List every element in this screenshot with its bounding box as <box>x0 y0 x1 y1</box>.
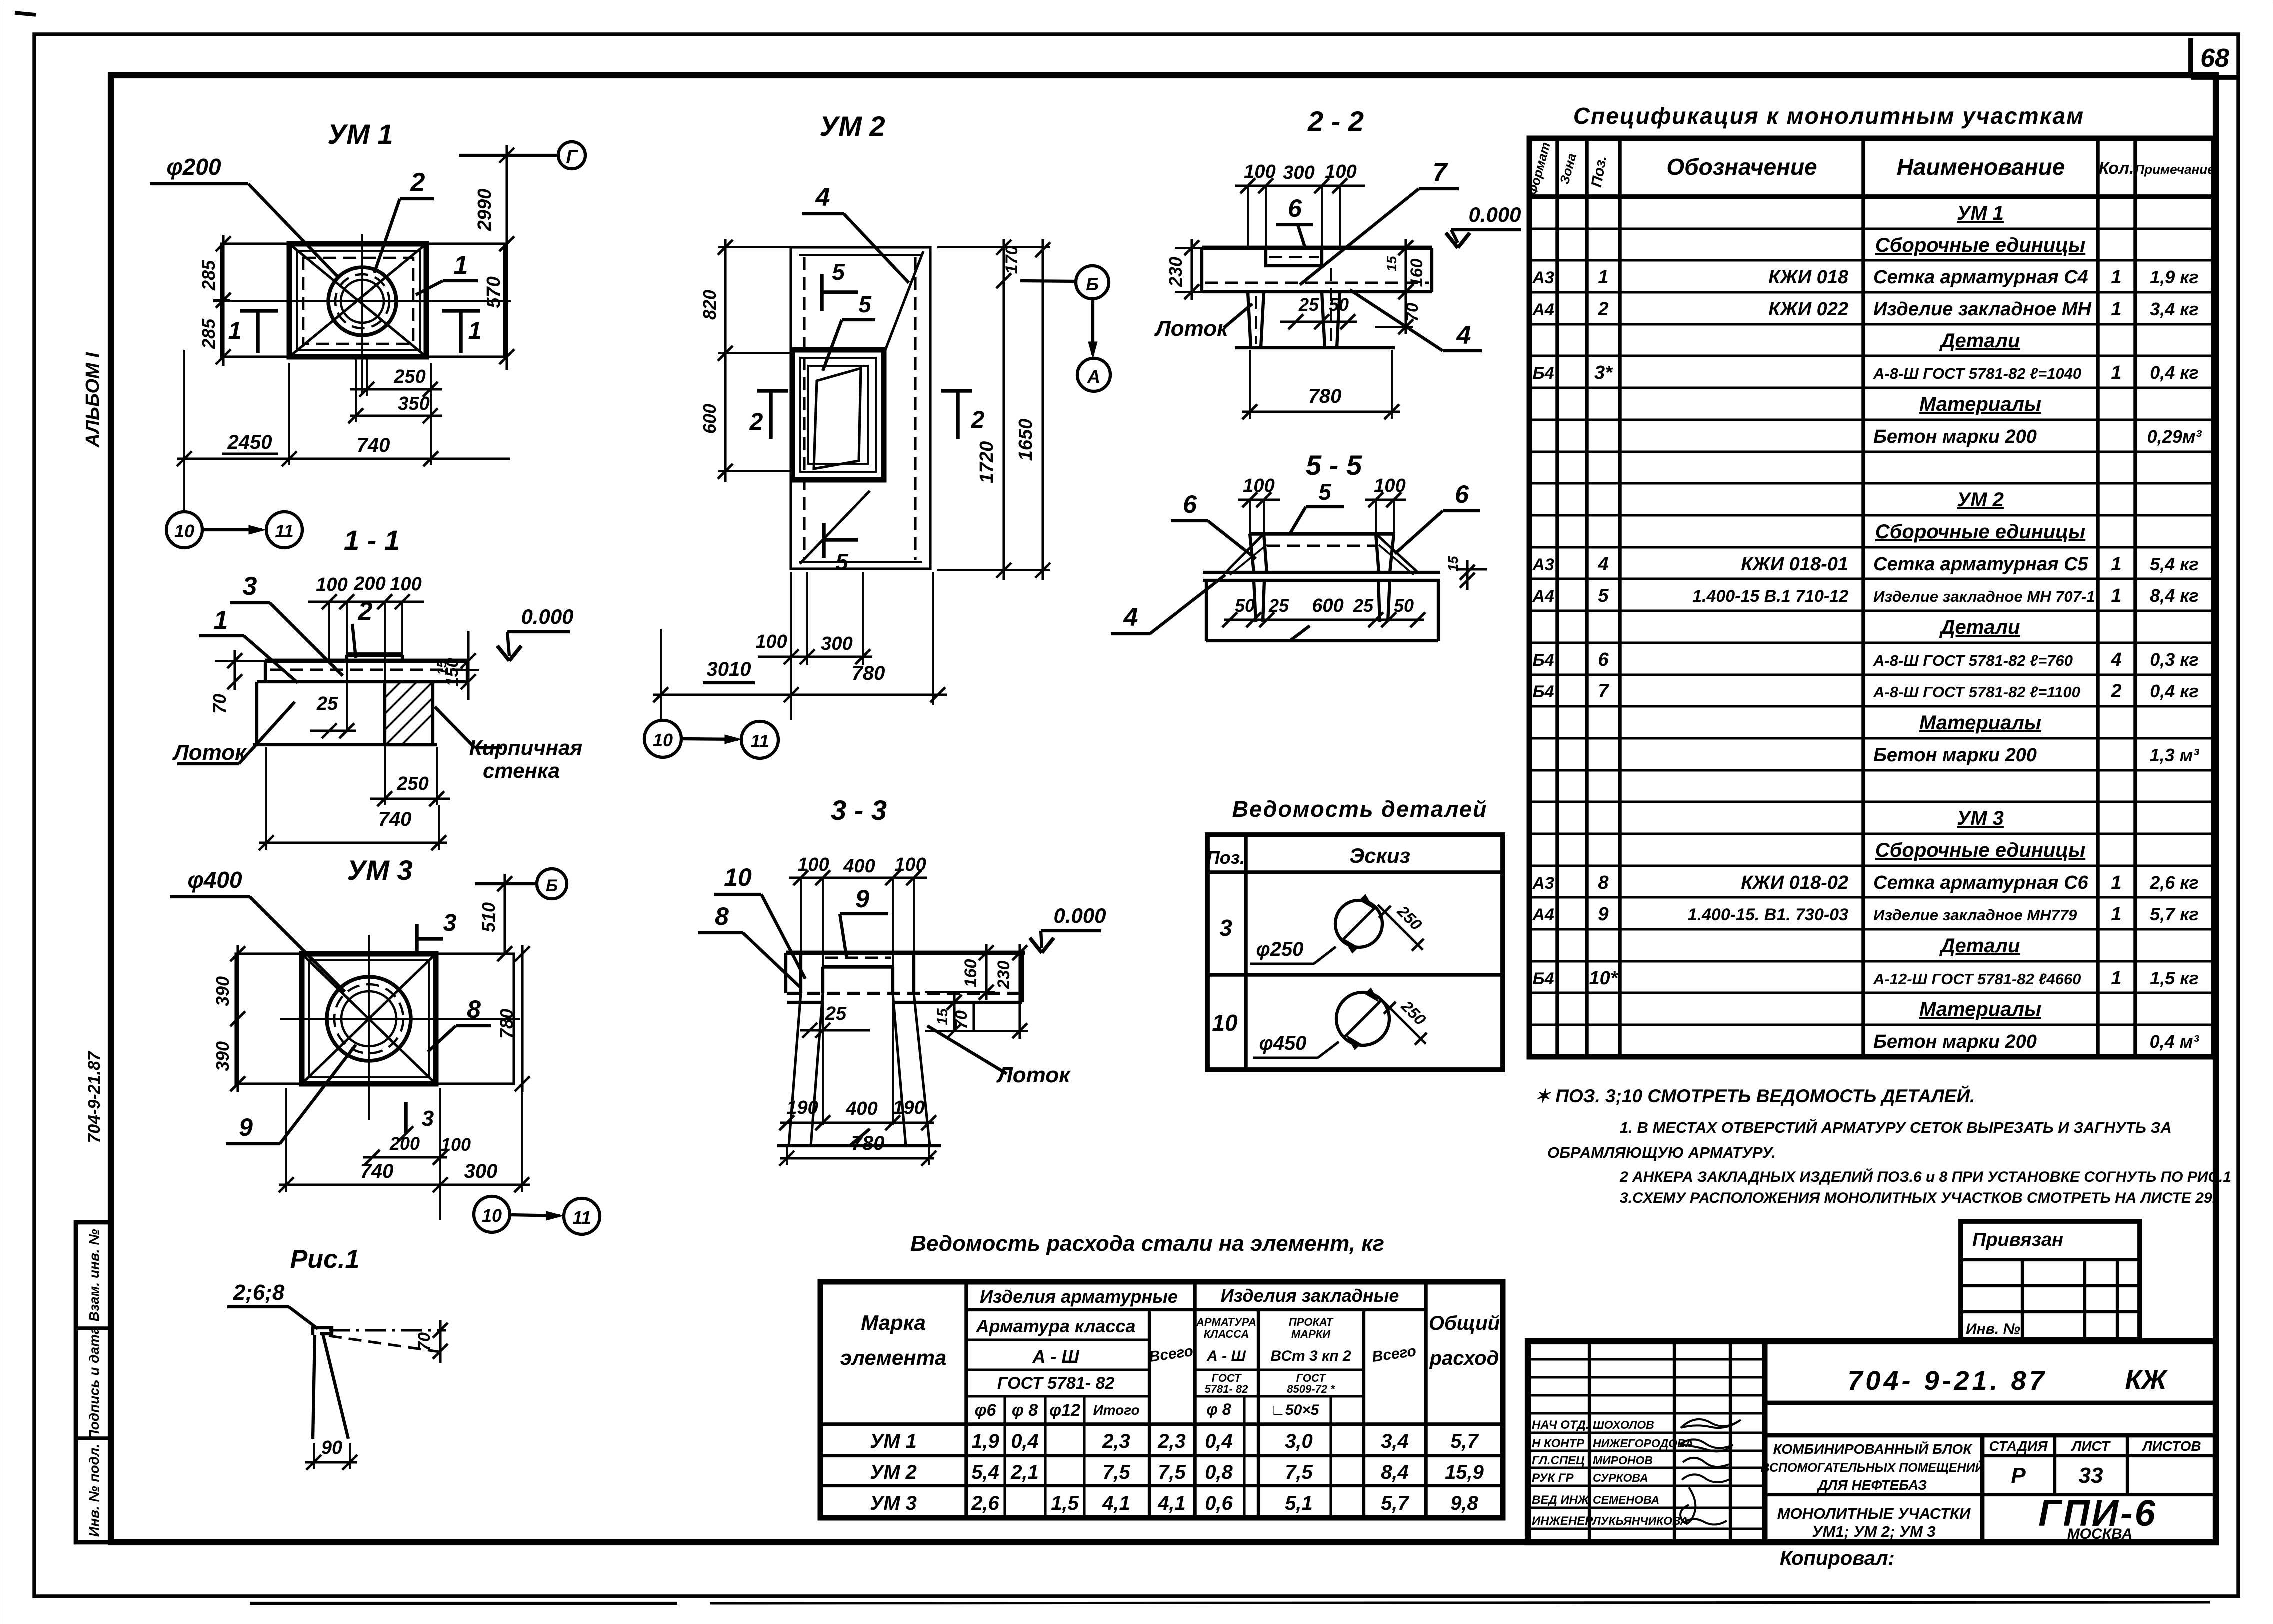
svg-text:Обозначение: Обозначение <box>1666 154 1817 180</box>
svg-text:Изделия арматурные: Изделия арматурные <box>980 1286 1178 1307</box>
svg-text:МАРКИ: МАРКИ <box>1291 1328 1331 1340</box>
УМ3 dim 510 <box>503 874 506 954</box>
svg-text:Инв. № подл.: Инв. № подл. <box>86 1444 102 1537</box>
УМ1 opening circles <box>328 267 396 335</box>
УМ3 inner thin rect <box>309 960 429 1077</box>
УМ2 bottom extension lines <box>660 629 662 720</box>
svg-text:5,7: 5,7 <box>1381 1492 1409 1514</box>
svg-text:1,9 кг: 1,9 кг <box>2150 267 2199 287</box>
2-2 slab bottom line <box>1202 290 1432 293</box>
svg-text:1: 1 <box>2111 267 2121 288</box>
5-5 floor break mark <box>1290 626 1310 641</box>
svg-text:МОНОЛИТНЫЕ УЧАСТКИ: МОНОЛИТНЫЕ УЧАСТКИ <box>1777 1505 1971 1522</box>
svg-text:Детали: Детали <box>1939 616 2020 638</box>
1-1 right edge <box>466 661 469 682</box>
svg-text:5,7: 5,7 <box>1450 1430 1479 1452</box>
svg-text:1,9: 1,9 <box>971 1430 999 1452</box>
svg-text:ОБРАМЛЯЮЩУЮ АРМАТУРУ.: ОБРАМЛЯЮЩУЮ АРМАТУРУ. <box>1547 1144 1776 1161</box>
svg-text:15: 15 <box>934 1008 951 1025</box>
УМ2 opening inner rects <box>800 358 876 472</box>
svg-text:704- 9-21. 87: 704- 9-21. 87 <box>1847 1366 2047 1396</box>
svg-text:1: 1 <box>2111 872 2121 893</box>
Ведомость деталей row 3 sketch circle <box>1335 900 1382 947</box>
svg-text:Привязан: Привязан <box>1972 1229 2063 1250</box>
svg-text:1,5 кг: 1,5 кг <box>2150 968 2199 988</box>
svg-text:1.400-15. В1. 730-03: 1.400-15. В1. 730-03 <box>1688 905 1848 924</box>
svg-text:11: 11 <box>750 731 769 751</box>
svg-text:250: 250 <box>396 773 428 794</box>
svg-text:Спецификация к монолитным у: Спецификация к монолитным участкам <box>1573 103 2084 129</box>
svg-text:УМ 2: УМ 2 <box>870 1461 917 1483</box>
svg-text:Сетка арматурная С5: Сетка арматурная С5 <box>1873 554 2089 575</box>
svg-text:φ6: φ6 <box>975 1401 997 1420</box>
svg-text:2,3: 2,3 <box>1157 1430 1186 1452</box>
svg-text:11: 11 <box>572 1207 591 1228</box>
svg-text:50: 50 <box>1329 294 1349 315</box>
УМ2 axis arrow Б-А <box>1091 299 1094 355</box>
svg-text:390: 390 <box>212 976 233 1006</box>
Рис.1 anchor leg <box>313 1335 315 1439</box>
1-1 dims 15 150 right <box>467 631 469 700</box>
svg-text:100: 100 <box>316 574 347 595</box>
УМ3 opening circles <box>327 977 411 1061</box>
svg-text:✶ ПОЗ. 3;10 СМОТРЕТЬ ВЕД: ✶ ПОЗ. 3;10 СМОТРЕТЬ ВЕДОМОСТЬ ДЕТАЛЕЙ. <box>1535 1085 1975 1106</box>
svg-text:Ведомость деталей: Ведомость деталей <box>1232 796 1488 822</box>
svg-text:Сборочные единицы: Сборочные единицы <box>1875 521 2085 543</box>
1-1 embedded plate <box>347 652 402 657</box>
svg-text:УМ 3: УМ 3 <box>347 854 412 886</box>
svg-text:ВЕД ИНЖ: ВЕД ИНЖ <box>1532 1493 1590 1507</box>
svg-text:510: 510 <box>478 902 499 932</box>
svg-text:Поз.: Поз. <box>1207 847 1245 868</box>
svg-text:8: 8 <box>467 995 481 1023</box>
svg-text:8: 8 <box>715 902 729 930</box>
УМ3 monolithic thick square <box>302 954 436 1084</box>
svg-text:2450: 2450 <box>227 431 272 453</box>
svg-text:5,1: 5,1 <box>1285 1492 1313 1514</box>
svg-text:2990: 2990 <box>474 189 495 232</box>
svg-text:Примечание: Примечание <box>2135 162 2214 177</box>
svg-text:4,1: 4,1 <box>1102 1492 1130 1514</box>
svg-text:РУК ГР: РУК ГР <box>1532 1471 1574 1485</box>
УМ2 axis arrow 10-11 <box>681 739 738 739</box>
svg-text:УМ 2: УМ 2 <box>1957 489 2004 511</box>
svg-text:8: 8 <box>1598 872 1609 893</box>
УМ2 top diagonal <box>885 251 923 351</box>
svg-text:9: 9 <box>855 885 869 913</box>
svg-text:УМ 1: УМ 1 <box>1957 202 2004 224</box>
svg-text:10: 10 <box>174 521 194 541</box>
svg-text:0,6: 0,6 <box>1205 1492 1233 1514</box>
svg-text:1,5: 1,5 <box>1051 1492 1079 1514</box>
svg-text:300: 300 <box>464 1160 498 1182</box>
УМ3 axis circle 10 <box>474 1196 510 1232</box>
svg-text:ЛИСТ: ЛИСТ <box>2071 1438 2111 1454</box>
svg-text:0,4: 0,4 <box>1011 1430 1039 1452</box>
УМ2 dim 820 left <box>724 239 726 361</box>
svg-text:Бетон марки 200: Бетон марки 200 <box>1873 745 2037 766</box>
svg-text:КЛАССА: КЛАССА <box>1204 1328 1249 1340</box>
svg-text:1: 1 <box>2111 904 2121 925</box>
svg-text:А3: А3 <box>1532 268 1554 287</box>
5-5 slab lines <box>1203 571 1440 574</box>
svg-text:∟50×5: ∟50×5 <box>1271 1402 1320 1418</box>
svg-text:МОСКВА: МОСКВА <box>2067 1526 2133 1542</box>
svg-text:25: 25 <box>1268 595 1289 616</box>
svg-text:0.000: 0.000 <box>1468 203 1521 226</box>
svg-text:4: 4 <box>1123 603 1138 632</box>
svg-text:10: 10 <box>724 863 752 891</box>
svg-text:φ400: φ400 <box>187 867 242 893</box>
2-2 slab edges <box>1200 248 1203 292</box>
svg-text:5,4: 5,4 <box>971 1461 999 1483</box>
svg-text:11: 11 <box>275 521 293 541</box>
svg-text:10*: 10* <box>1589 968 1618 989</box>
3-3 slab bottom line <box>787 1001 823 1004</box>
3-3 embedded channel <box>823 965 893 969</box>
УМ2 opening thick rect <box>792 350 884 480</box>
svg-text:100: 100 <box>797 854 829 875</box>
steel table verticals <box>964 1282 968 1518</box>
УМ1 axis circle 11 <box>266 512 302 548</box>
1-1 slab bottom line <box>257 680 467 683</box>
2-2 wall dashed lines <box>1255 296 1257 344</box>
svg-text:285: 285 <box>198 260 219 291</box>
margin stamp boxes <box>76 1222 111 1542</box>
svg-text:Детали: Детали <box>1939 935 2020 957</box>
svg-text:0.000: 0.000 <box>521 605 573 628</box>
svg-text:1: 1 <box>2111 968 2121 989</box>
svg-text:2: 2 <box>2110 681 2121 702</box>
svg-text:КЖИ 018: КЖИ 018 <box>1768 267 1849 288</box>
svg-text:0,4 кг: 0,4 кг <box>2150 362 2199 383</box>
title block outer frame <box>1528 1341 2216 1542</box>
УМ2 axis circle 11 <box>741 721 778 758</box>
title block signature columns <box>1588 1341 1591 1542</box>
svg-text:2,3: 2,3 <box>1102 1430 1130 1452</box>
УМ2 section mark 2 left <box>757 389 788 393</box>
svg-text:НИЖЕГОРОДОВА: НИЖЕГОРОДОВА <box>1593 1437 1693 1450</box>
1-1 mesh dashed line <box>270 668 465 671</box>
svg-text:200: 200 <box>389 1133 420 1154</box>
svg-text:МИРОНОВ: МИРОНОВ <box>1593 1454 1653 1467</box>
3-3 right wall <box>891 967 894 993</box>
Ведомость деталей row 10 dim 250 <box>1383 1001 1426 1044</box>
svg-text:390: 390 <box>212 1041 233 1071</box>
svg-text:УМ 2: УМ 2 <box>819 110 885 142</box>
svg-text:Кол.: Кол. <box>2099 159 2134 178</box>
2-2 left wall <box>1248 292 1251 348</box>
УМ3 slab thin outline <box>236 954 514 1084</box>
svg-text:Сетка арматурная С6: Сетка арматурная С6 <box>1873 872 2089 893</box>
svg-text:Изделие закладное МН779: Изделие закладное МН779 <box>1873 906 2077 924</box>
svg-text:3 - 3: 3 - 3 <box>831 794 887 826</box>
svg-text:Б4: Б4 <box>1533 364 1554 383</box>
svg-text:7,5: 7,5 <box>1158 1461 1186 1483</box>
2-2 mesh dashed <box>1205 281 1429 284</box>
УМ1 centrelines <box>213 300 511 302</box>
2-2 right wall <box>1322 292 1325 348</box>
svg-text:КЖИ 022: КЖИ 022 <box>1768 299 1848 320</box>
svg-text:68: 68 <box>2200 44 2229 73</box>
УМ3 section mark 3 bottom + dim 200 <box>404 1102 408 1134</box>
2-2 dim 230 left <box>1190 239 1193 300</box>
svg-text:А3: А3 <box>1532 874 1554 893</box>
svg-text:5781- 82: 5781- 82 <box>1205 1383 1249 1395</box>
svg-text:6: 6 <box>1455 480 1469 508</box>
svg-text:Подпись и дата: Подпись и дата <box>86 1327 102 1440</box>
Ведомость деталей row 3 dim 250 <box>1378 905 1423 950</box>
svg-text:15: 15 <box>1445 556 1461 572</box>
svg-text:5: 5 <box>1598 585 1609 606</box>
3-3 top surface line <box>786 951 1025 955</box>
УМ1 slab thin outline <box>221 244 504 357</box>
svg-text:780: 780 <box>852 662 885 684</box>
svg-text:АРМАТУРА: АРМАТУРА <box>1196 1316 1256 1328</box>
svg-text:3: 3 <box>243 572 257 601</box>
svg-text:400: 400 <box>843 856 875 877</box>
svg-text:Изделие закладное МН 707-1: Изделие закладное МН 707-1 <box>1873 588 2095 605</box>
svg-text:1650: 1650 <box>1015 419 1036 461</box>
Спецификация column lines <box>1555 138 1559 1057</box>
УМ1 corner diagonals <box>289 244 426 357</box>
svg-text:φ 8: φ 8 <box>1012 1401 1038 1420</box>
svg-text:704-9-21.87: 704-9-21.87 <box>85 1050 104 1143</box>
svg-text:400: 400 <box>845 1098 877 1119</box>
svg-text:А - Ш: А - Ш <box>1032 1346 1079 1367</box>
svg-text:50: 50 <box>1235 595 1255 616</box>
УМ3 axis arrow 10-11 <box>510 1215 560 1216</box>
svg-text:70: 70 <box>209 694 230 714</box>
svg-text:3010: 3010 <box>707 658 751 680</box>
svg-text:8509-72 *: 8509-72 * <box>1287 1383 1335 1395</box>
svg-text:4,1: 4,1 <box>1157 1492 1186 1514</box>
svg-text:70: 70 <box>415 1332 434 1351</box>
svg-text:Эскиз: Эскиз <box>1349 844 1410 867</box>
title block left rows <box>1528 1358 1765 1360</box>
svg-text:ПРОКАТ: ПРОКАТ <box>1289 1316 1334 1328</box>
Рис.1 dash-dot line <box>329 1329 446 1331</box>
svg-text:6: 6 <box>1288 194 1302 222</box>
svg-text:ДЛЯ НЕФТЕБАЗ: ДЛЯ НЕФТЕБАЗ <box>1817 1477 1927 1493</box>
svg-text:8,4: 8,4 <box>1381 1461 1409 1483</box>
svg-text:9,8: 9,8 <box>1450 1492 1478 1514</box>
УМ2 dim 1720 <box>1002 290 1005 580</box>
svg-text:780: 780 <box>1308 385 1342 407</box>
svg-text:А: А <box>1087 366 1100 387</box>
svg-text:КОМБИНИРОВАННЫЙ БЛОК: КОМБИНИРОВАННЫЙ БЛОК <box>1773 1441 1973 1457</box>
svg-text:10: 10 <box>1212 1010 1238 1036</box>
svg-text:0,3 кг: 0,3 кг <box>2150 649 2199 670</box>
Привязан grid lines <box>1961 1258 2140 1261</box>
1-1 dim 70 left <box>233 650 236 690</box>
svg-text:200: 200 <box>353 573 385 594</box>
svg-text:элемента: элемента <box>840 1346 947 1369</box>
5-5 upstand box <box>1250 532 1394 536</box>
title block document number cell <box>1765 1401 2216 1405</box>
УМ3 corner diagonals <box>302 954 436 1084</box>
svg-text:Лоток: Лоток <box>996 1063 1072 1087</box>
Спецификация table outer frame <box>1529 138 2214 1057</box>
svg-text:2: 2 <box>749 409 763 435</box>
УМ1 dim 2450/740 <box>177 457 510 460</box>
svg-text:Б4: Б4 <box>1533 682 1554 701</box>
svg-text:Наименование: Наименование <box>1897 154 2065 180</box>
svg-text:5,4 кг: 5,4 кг <box>2150 554 2199 574</box>
svg-text:820: 820 <box>699 290 720 320</box>
2-2 dims 15 160 70 right <box>1404 239 1407 300</box>
svg-text:160: 160 <box>1407 259 1426 287</box>
УМ1 inner thin rect <box>297 251 420 350</box>
svg-text:3,0: 3,0 <box>1285 1430 1313 1452</box>
Ведомость деталей table frame <box>1207 835 1503 1070</box>
svg-text:230: 230 <box>994 961 1013 990</box>
svg-text:570: 570 <box>483 276 504 308</box>
svg-text:4: 4 <box>815 183 830 212</box>
svg-text:Копировал:: Копировал: <box>1780 1547 1895 1569</box>
УМ2 dim 600 left <box>724 353 726 482</box>
svg-text:33: 33 <box>2079 1463 2103 1488</box>
УМ3 dim 740/300 <box>279 1183 530 1186</box>
svg-text:780: 780 <box>496 1009 517 1039</box>
svg-text:Сборочные единицы: Сборочные единицы <box>1875 839 2085 861</box>
5-5 box dashed inner <box>1267 544 1376 547</box>
svg-text:ВСПОМОГАТЕЛЬНЫХ ПОМЕЩЕНИЙ: ВСПОМОГАТЕЛЬНЫХ ПОМЕЩЕНИЙ <box>1761 1460 1985 1475</box>
svg-text:90: 90 <box>321 1437 342 1458</box>
svg-text:160: 160 <box>961 959 980 988</box>
УМ2 dim 1650 <box>1041 239 1044 580</box>
УМ3 section mark 3 top <box>415 924 419 951</box>
5-5 dim 15 right <box>1456 568 1487 570</box>
svg-text:5: 5 <box>858 291 872 317</box>
3-3 channel floor <box>777 1144 941 1147</box>
svg-text:Ведомость расхода стали: Ведомость расхода стали на элемент, кг <box>910 1231 1384 1256</box>
svg-text:5: 5 <box>835 549 849 575</box>
УМ2 dashed edge lines <box>803 257 805 560</box>
svg-text:2 АНКЕРА ЗАКЛАДНЫХ ИЗДЕЛИЙ П: 2 АНКЕРА ЗАКЛАДНЫХ ИЗДЕЛИЙ ПОЗ.6 и 8 ПРИ… <box>1619 1168 2231 1185</box>
Ведомость деталей row 10 sketch circle <box>1336 992 1389 1045</box>
svg-text:АЛЬБОМ I: АЛЬБОМ I <box>82 352 103 448</box>
title block signatures squiggle <box>1681 1419 1741 1428</box>
УМ2 bottom diagonal <box>800 491 870 564</box>
svg-text:9: 9 <box>239 1113 253 1141</box>
svg-text:2 - 2: 2 - 2 <box>1307 105 1364 137</box>
svg-text:3*: 3* <box>1594 362 1613 383</box>
svg-text:А3: А3 <box>1532 555 1554 574</box>
svg-text:6: 6 <box>1183 490 1197 518</box>
УМ1 section mark 1-1 left <box>240 309 278 313</box>
svg-text:А4: А4 <box>1532 300 1554 319</box>
svg-text:5,7 кг: 5,7 кг <box>2150 904 2199 924</box>
bottom margin scan line <box>250 1602 677 1605</box>
svg-text:Арматура класса: Арматура класса <box>976 1316 1136 1336</box>
svg-text:φ12: φ12 <box>1049 1401 1080 1420</box>
svg-text:2;6;8: 2;6;8 <box>233 1280 285 1305</box>
УМ3 centrelines <box>280 1018 520 1020</box>
УМ1 axis arrow 10-11 <box>202 528 262 531</box>
5-5 wall legs below slab <box>1254 580 1256 622</box>
svg-text:СТАДИЯ: СТАДИЯ <box>1989 1438 2048 1454</box>
svg-text:5: 5 <box>832 259 845 285</box>
УМ1 axis circle Г <box>558 142 585 169</box>
svg-text:1: 1 <box>468 318 482 344</box>
Спецификация header underline <box>1529 194 2214 199</box>
svg-text:600: 600 <box>699 404 720 434</box>
svg-text:А-12-Ш ГОСТ 5781-82 ℓ4660: А-12-Ш ГОСТ 5781-82 ℓ4660 <box>1873 970 2081 988</box>
УМ1 dim 350 <box>350 414 442 417</box>
svg-text:Б: Б <box>1086 274 1099 294</box>
svg-text:780: 780 <box>851 1132 885 1154</box>
svg-text:Общий: Общий <box>1429 1312 1500 1334</box>
svg-text:70: 70 <box>1403 303 1422 322</box>
svg-text:1: 1 <box>2111 299 2121 320</box>
svg-text:2: 2 <box>1597 299 1608 320</box>
УМ1 dim 570 <box>505 244 508 370</box>
1-1 extension lines from top dims <box>328 602 330 660</box>
svg-text:1,3 м³: 1,3 м³ <box>2150 745 2200 765</box>
svg-text:285: 285 <box>198 318 219 349</box>
1-1 channel floor <box>253 743 437 746</box>
svg-text:25: 25 <box>316 693 338 714</box>
Спецификация row lines <box>1529 227 2214 230</box>
svg-text:3,4 кг: 3,4 кг <box>2150 299 2199 319</box>
title block stadia grid <box>1980 1435 1985 1542</box>
svg-text:170: 170 <box>1002 246 1021 274</box>
svg-text:А-8-Ш ГОСТ 5781-82 ℓ=1100: А-8-Ш ГОСТ 5781-82 ℓ=1100 <box>1873 683 2080 701</box>
svg-text:СУРКОВА: СУРКОВА <box>1593 1471 1648 1484</box>
svg-text:ЛУКЬЯНЧИКОВА: ЛУКЬЯНЧИКОВА <box>1592 1514 1688 1527</box>
svg-text:3.СХЕМУ РАСПОЛОЖЕНИЯ МОНОЛИТ: 3.СХЕМУ РАСПОЛОЖЕНИЯ МОНОЛИТНЫХ УЧАСТКОВ… <box>1620 1190 2216 1206</box>
svg-text:1 - 1: 1 - 1 <box>344 524 400 556</box>
svg-text:25: 25 <box>1298 294 1319 315</box>
top-left scan mark <box>15 13 36 15</box>
steel table horizontals <box>966 1308 1426 1311</box>
svg-text:Бетон марки 200: Бетон марки 200 <box>1873 426 2037 447</box>
5-5 wall diagonals <box>1226 534 1264 572</box>
УМ2 inner thin rect <box>799 254 922 256</box>
svg-text:φ250: φ250 <box>1256 938 1304 960</box>
УМ2 section mark 5 bottom <box>822 523 826 558</box>
svg-text:1: 1 <box>214 606 228 635</box>
svg-text:0,29м³: 0,29м³ <box>2147 426 2202 447</box>
svg-text:Лоток: Лоток <box>172 740 248 765</box>
3-3 floor break mark <box>850 1129 870 1146</box>
3-3 extension lines <box>800 878 802 952</box>
svg-text:25: 25 <box>825 1003 847 1024</box>
svg-text:4: 4 <box>1456 321 1471 350</box>
svg-text:100: 100 <box>755 631 787 652</box>
svg-text:УМ1; УМ 2; УМ 3: УМ1; УМ 2; УМ 3 <box>1812 1523 1935 1540</box>
2-2 slab top line <box>1202 246 1432 250</box>
Привязан box frame <box>1961 1221 2140 1339</box>
svg-text:1: 1 <box>2111 585 2121 606</box>
svg-text:0,8: 0,8 <box>1205 1461 1233 1483</box>
svg-text:8,4 кг: 8,4 кг <box>2150 585 2199 606</box>
svg-text:15: 15 <box>1384 256 1399 272</box>
svg-text:Материалы: Материалы <box>1919 712 2041 734</box>
svg-text:Материалы: Материалы <box>1919 998 2041 1020</box>
svg-text:2,1: 2,1 <box>1010 1461 1039 1483</box>
svg-text:0,4 м³: 0,4 м³ <box>2150 1031 2200 1052</box>
svg-text:А - Ш: А - Ш <box>1206 1348 1246 1364</box>
svg-text:Сборочные единицы: Сборочные единицы <box>1875 234 2085 256</box>
УМ2 section mark 5 top <box>820 274 824 311</box>
1-1 left edge <box>264 661 267 682</box>
svg-text:50: 50 <box>1394 595 1414 616</box>
svg-text:0.000: 0.000 <box>1053 904 1106 927</box>
svg-text:2: 2 <box>410 168 425 197</box>
svg-text:4: 4 <box>1597 554 1608 575</box>
